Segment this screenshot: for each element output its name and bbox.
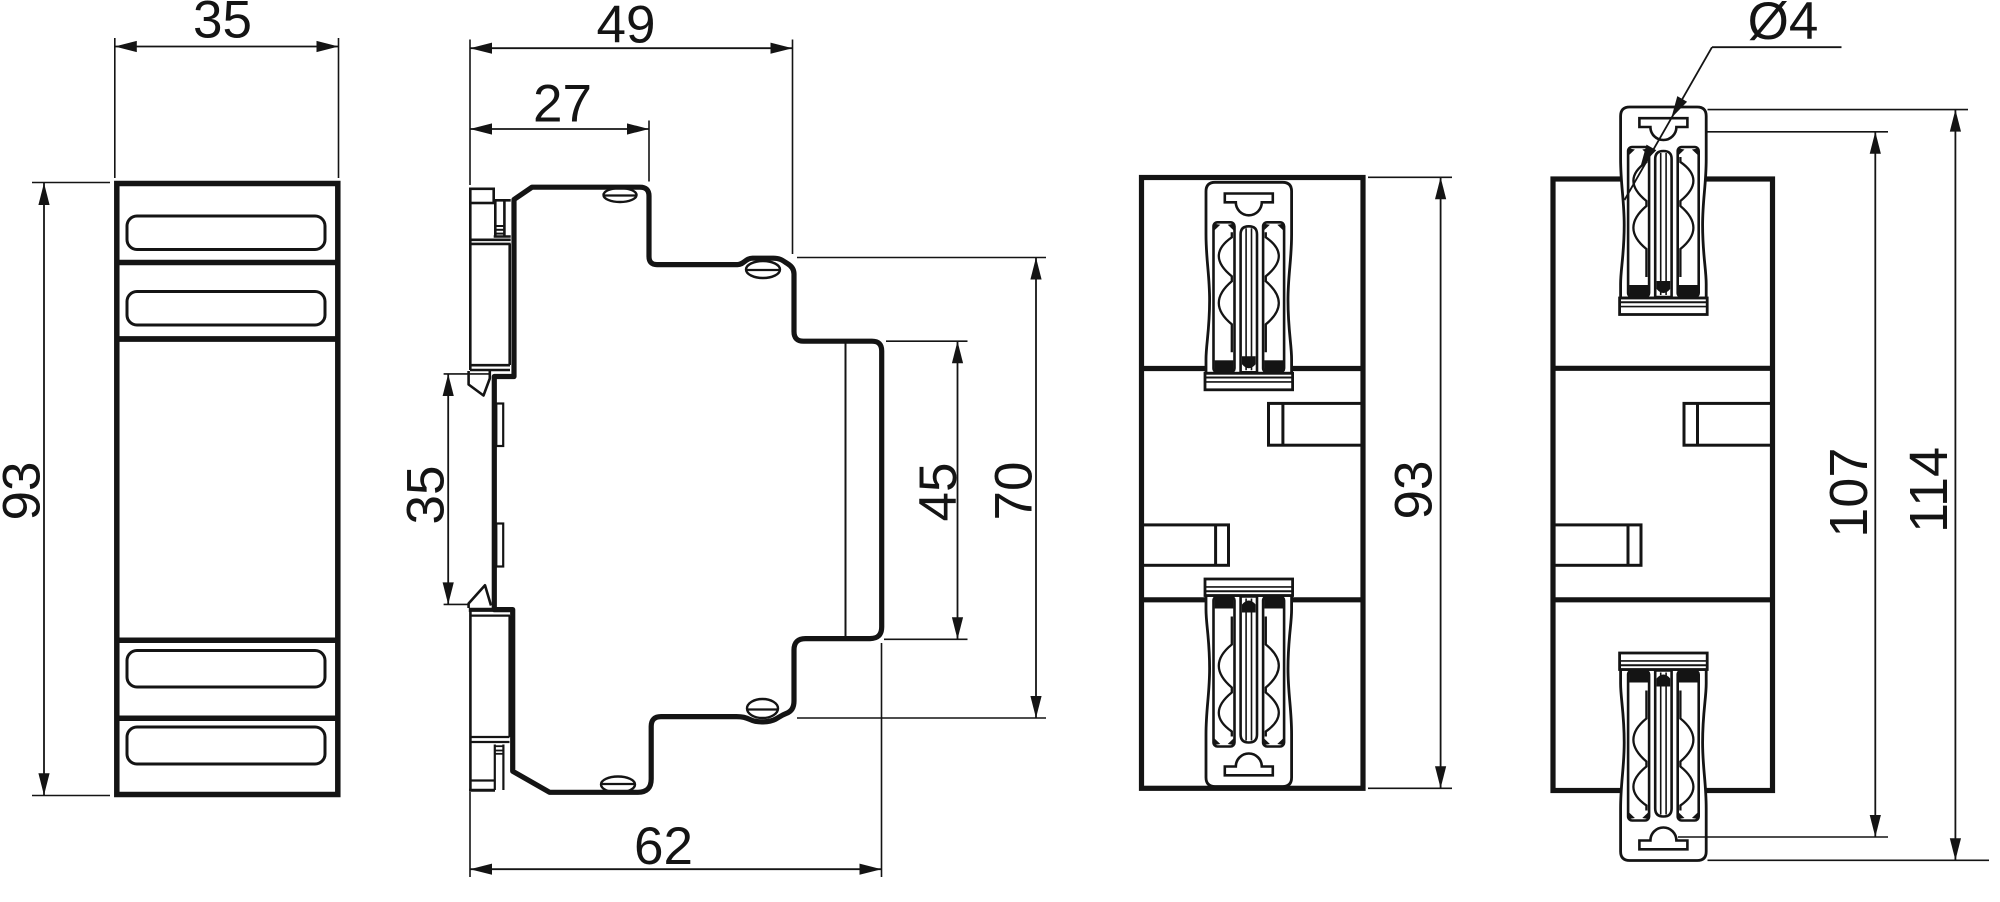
svg-text:114: 114 [1899,447,1959,533]
svg-text:35: 35 [397,466,456,525]
svg-text:Ø4: Ø4 [1748,0,1819,51]
svg-text:27: 27 [533,74,592,133]
svg-text:93: 93 [1385,461,1444,520]
svg-text:35: 35 [193,0,252,50]
svg-text:70: 70 [985,462,1044,521]
svg-text:62: 62 [634,817,693,876]
svg-text:107: 107 [1819,448,1879,538]
svg-text:45: 45 [909,463,968,522]
svg-text:93: 93 [0,462,52,521]
svg-text:49: 49 [597,0,656,55]
